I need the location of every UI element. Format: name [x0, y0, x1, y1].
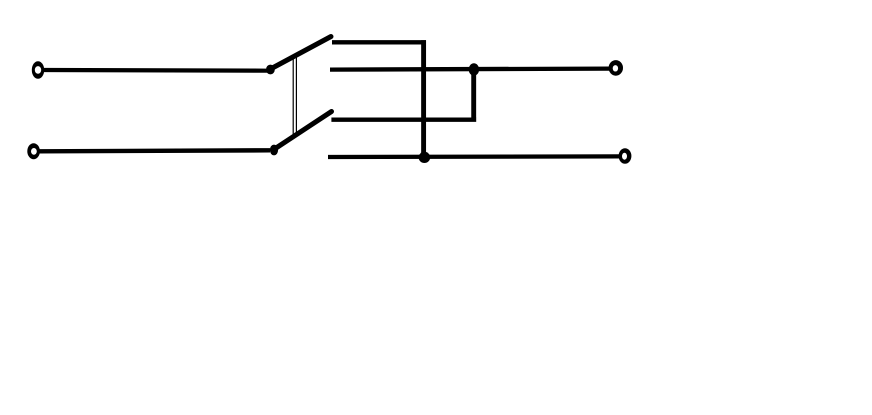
wire W2 (bottom-left input to pole B)	[40, 150, 271, 151]
terminal T1 (top-left input)	[32, 61, 44, 79]
wire A (pole A upper throw to crossover)	[332, 40, 426, 44]
switch SW1 pole B contact	[270, 145, 278, 156]
wire V2 (crossover vertical, lower throw C up to output wire B)	[471, 70, 476, 118]
terminal T4 (bottom-right output)	[619, 148, 632, 163]
switch SW1 pole A lever (thrown up)	[271, 37, 332, 70]
junction node J2 (crossover vertical V1 joins wire D)	[419, 152, 431, 163]
junction node J1 (wire B joins crossover vertical V2)	[469, 63, 479, 75]
wire C (pole B upper throw to crossover)	[331, 118, 476, 122]
terminal T3 (top-right output)	[609, 60, 623, 76]
wire D (pole B lower throw to bottom-right output)	[328, 154, 620, 159]
wire W1 (top-left input to pole A)	[44, 68, 268, 73]
switch SW1 pole A contact	[266, 65, 275, 75]
switch SW1 pole B lever (thrown up)	[273, 112, 332, 151]
terminal T2 (bottom-left input)	[27, 143, 40, 159]
switch SW1 mechanical coupling bar	[293, 56, 296, 136]
wire B (pole A lower throw to top-right output)	[330, 69, 610, 70]
wire V1 (crossover vertical, upper throw A down to output wire D)	[421, 40, 426, 157]
